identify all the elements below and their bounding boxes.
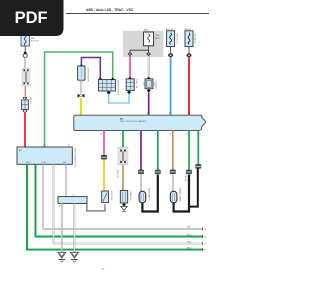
svg-text:NOISE FILTER: NOISE FILTER <box>87 68 89 82</box>
ground wire 2 <box>73 203 75 252</box>
svg-text:SKID CONTROL ECU: SKID CONTROL ECU <box>73 148 75 168</box>
svg-text:29: 29 <box>138 134 140 136</box>
fuse GAUGE <box>185 31 193 47</box>
svg-text:ABS , Auto LSD , TRAC , VSC: ABS , Auto LSD , TRAC , VSC <box>86 8 134 12</box>
ABS motor relay grid box <box>98 78 102 82</box>
svg-text:R/B ENG: R/B ENG <box>29 97 31 105</box>
yellow wire <box>103 159 105 191</box>
svg-text:32: 32 <box>186 134 188 136</box>
wire <box>24 46 26 51</box>
gray wire from switch to junction bar <box>87 204 105 211</box>
svg-text:A6: A6 <box>59 205 61 208</box>
skid control ECU box <box>17 147 72 164</box>
wires from fuse <box>130 46 149 52</box>
junction shield with pass-through connectors <box>22 68 30 86</box>
cyan wire <box>170 57 172 115</box>
white wire ECU to bottom row 3 <box>54 164 203 243</box>
svg-text:GAUGE: GAUGE <box>184 28 192 31</box>
green wire below bus to connector <box>122 131 124 147</box>
fuse F13 AM2 <box>21 33 29 47</box>
svg-text:10A GAUGE: 10A GAUGE <box>194 33 197 45</box>
svg-text:BRAKE WARN: BRAKE WARN <box>179 188 182 202</box>
ground symbol 2 <box>70 252 78 258</box>
inline connector on green wire 7 <box>196 164 201 168</box>
svg-text:5: 5 <box>80 113 81 115</box>
ABS main relay <box>147 77 151 81</box>
inline connector on purple wire <box>138 170 143 174</box>
ABS solenoid relay grid box <box>128 77 132 81</box>
parking brake switch <box>120 190 127 203</box>
grid connector 2E <box>23 97 27 99</box>
inline connector on green wire 6 <box>186 170 191 174</box>
green wire ECU to bottom row 4 <box>27 164 203 249</box>
purple wire below bus <box>140 131 142 170</box>
svg-text:13: 13 <box>154 134 156 136</box>
ground under switch <box>122 203 126 206</box>
tan wire <box>122 165 124 191</box>
svg-text:46: 46 <box>169 134 171 136</box>
red wire to ECU <box>24 112 26 147</box>
svg-text:25: 25 <box>101 134 103 136</box>
white wire ECU to junction bar <box>65 164 67 196</box>
header rule <box>66 13 209 15</box>
pink wire <box>129 56 131 79</box>
ABS warning light capsule <box>139 191 146 203</box>
connector ring <box>23 54 27 58</box>
green wire 6 <box>188 131 190 170</box>
junction bar <box>58 197 87 204</box>
svg-text:STOP SW: STOP SW <box>110 191 112 200</box>
connector diamond right <box>146 52 151 56</box>
svg-text:SKID CONTROL ECU (ABS ACT): SKID CONTROL ECU (ABS ACT) <box>120 120 147 123</box>
white wire <box>148 56 150 77</box>
ground symbol 1 <box>58 252 66 258</box>
green wire loop from ECU to ABS motor relay <box>45 52 113 147</box>
AM2 fuse in relay block <box>144 32 154 46</box>
svg-text:IG2 RELAY: IG2 RELAY <box>155 80 158 91</box>
fuse ECU-IG <box>167 31 175 47</box>
svg-text:CTR JB: CTR JB <box>184 174 186 182</box>
svg-text:- 4 -: - 4 - <box>100 267 105 271</box>
svg-text:W-B: W-B <box>187 241 192 243</box>
purple wire loop <box>81 58 100 80</box>
svg-text:1: 1 <box>23 145 24 147</box>
svg-text:8: 8 <box>200 134 201 136</box>
svg-text:PKB SW: PKB SW <box>116 170 118 178</box>
bowtie connector <box>78 94 85 98</box>
svg-text:32: 32 <box>43 145 45 147</box>
purple wire to bus <box>148 92 150 115</box>
PDF badge <box>0 0 64 36</box>
svg-text:ECU-IG: ECU-IG <box>166 29 173 31</box>
white wire <box>80 80 82 93</box>
yellow wire into bus <box>80 98 82 115</box>
svg-text:31: 31 <box>147 113 149 115</box>
svg-text:ECU-IG2: ECU-IG2 <box>31 40 39 42</box>
svg-text:W-B: W-B <box>187 227 192 229</box>
relay block gray area <box>123 31 163 57</box>
svg-text:22: 22 <box>169 113 171 115</box>
svg-text:PARK SW: PARK SW <box>129 191 132 200</box>
connector arrow <box>24 51 27 54</box>
red wire <box>188 57 190 115</box>
stop light switch box <box>102 191 109 203</box>
black wire L <box>189 168 198 206</box>
pink wire below bus <box>103 131 105 156</box>
svg-text:PDF: PDF <box>15 9 48 27</box>
brake warning light capsule <box>170 191 177 203</box>
tan wire <box>24 86 26 100</box>
black U wire 1 <box>142 175 157 212</box>
black U wire 2 <box>174 175 189 212</box>
inline connector on green wire 4 <box>155 170 160 174</box>
inline connector <box>101 155 106 159</box>
svg-text:1: 1 <box>187 113 188 115</box>
svg-text:GND1: GND1 <box>26 162 31 164</box>
gray wire <box>24 57 26 68</box>
light blue link wire <box>109 93 129 103</box>
svg-text:ABS WARN LT: ABS WARN LT <box>147 188 150 202</box>
svg-text:ABS MTR RELAY: ABS MTR RELAY <box>116 80 119 97</box>
pin stub above ECU <box>68 144 70 147</box>
row end ticks and labels <box>202 227 204 230</box>
green wire 7 far right <box>197 131 199 165</box>
green wire ECU to bottom row 2 <box>36 164 203 236</box>
white wire ECU to bottom row 1 <box>43 164 203 229</box>
inline connector on tan wire 5 <box>170 170 175 174</box>
tan wire 5 <box>172 131 174 170</box>
connector diamond left <box>128 52 133 56</box>
white wire to ABS warning light <box>140 174 142 192</box>
svg-text:23: 23 <box>120 134 122 136</box>
svg-text:15A ECU-IG: 15A ECU-IG <box>176 33 179 44</box>
noise filter capacitor <box>80 65 82 67</box>
svg-text:CSW: CSW <box>42 162 46 164</box>
svg-text:PRE 7.5A: PRE 7.5A <box>135 80 138 89</box>
ground wire 1 <box>61 203 63 252</box>
green wire 4 <box>157 131 159 170</box>
skid control ECU bus (ABS actuator) <box>74 115 206 130</box>
pass-through shield connector <box>118 147 128 165</box>
white wire to brake warning light <box>172 174 174 192</box>
